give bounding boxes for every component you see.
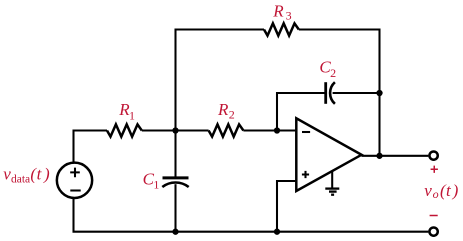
- wire: top rail right segment and right vertical: [299, 30, 380, 156]
- junction dot bottom rail at C1: [172, 229, 178, 235]
- resistor R3: [264, 23, 299, 35]
- junction dot C2/right vertical: [376, 90, 382, 96]
- svg-text:2: 2: [229, 108, 235, 122]
- terminal: output minus: [429, 227, 437, 235]
- wire: left vertical from main line to source top: [74, 131, 108, 163]
- op-amp U1: [296, 118, 361, 191]
- node B junction dot (inverting input): [274, 127, 280, 133]
- ground: [331, 171, 333, 188]
- wire: C2 to right vertical: [333, 92, 380, 94]
- wire: op-amp output to terminal: [362, 155, 429, 157]
- junction dot bottom rail at + input: [274, 229, 280, 235]
- svg-text:): ): [452, 181, 459, 200]
- output node junction dot: [376, 153, 382, 159]
- wire: node A down to C1: [174, 131, 176, 177]
- wire: R1 to R2 across node A: [142, 129, 209, 131]
- wire: R2 to op-amp inverting input: [243, 129, 296, 131]
- node A junction dot: [172, 127, 178, 133]
- svg-text:o: o: [433, 187, 439, 201]
- svg-text:1: 1: [153, 177, 159, 191]
- voltage source vdata(t): [57, 163, 92, 198]
- svg-text:data: data: [11, 173, 30, 185]
- wire: non-inverting input down to bottom rail: [277, 181, 296, 232]
- svg-text:): ): [43, 165, 50, 184]
- capacitor C1: [163, 176, 189, 179]
- label - (output polarity): [430, 215, 438, 217]
- svg-text:3: 3: [286, 8, 292, 22]
- svg-text:R: R: [272, 1, 284, 20]
- wire: node A up to top rail, top rail left segment: [176, 30, 265, 131]
- wire: node B up to C2 line: [277, 93, 326, 131]
- capacitor C2: [324, 82, 327, 104]
- wire: C1 to bottom rail: [174, 184, 176, 232]
- svg-text:2: 2: [330, 66, 336, 80]
- resistor R1: [107, 124, 142, 136]
- wire: source bottom to bottom rail, bottom rail: [74, 198, 429, 231]
- svg-text:1: 1: [129, 109, 135, 123]
- label + (output polarity): [431, 166, 438, 173]
- terminal: output plus: [429, 151, 437, 159]
- svg-text:R: R: [217, 100, 229, 119]
- svg-text:v: v: [424, 181, 432, 200]
- resistor R2: [209, 124, 244, 136]
